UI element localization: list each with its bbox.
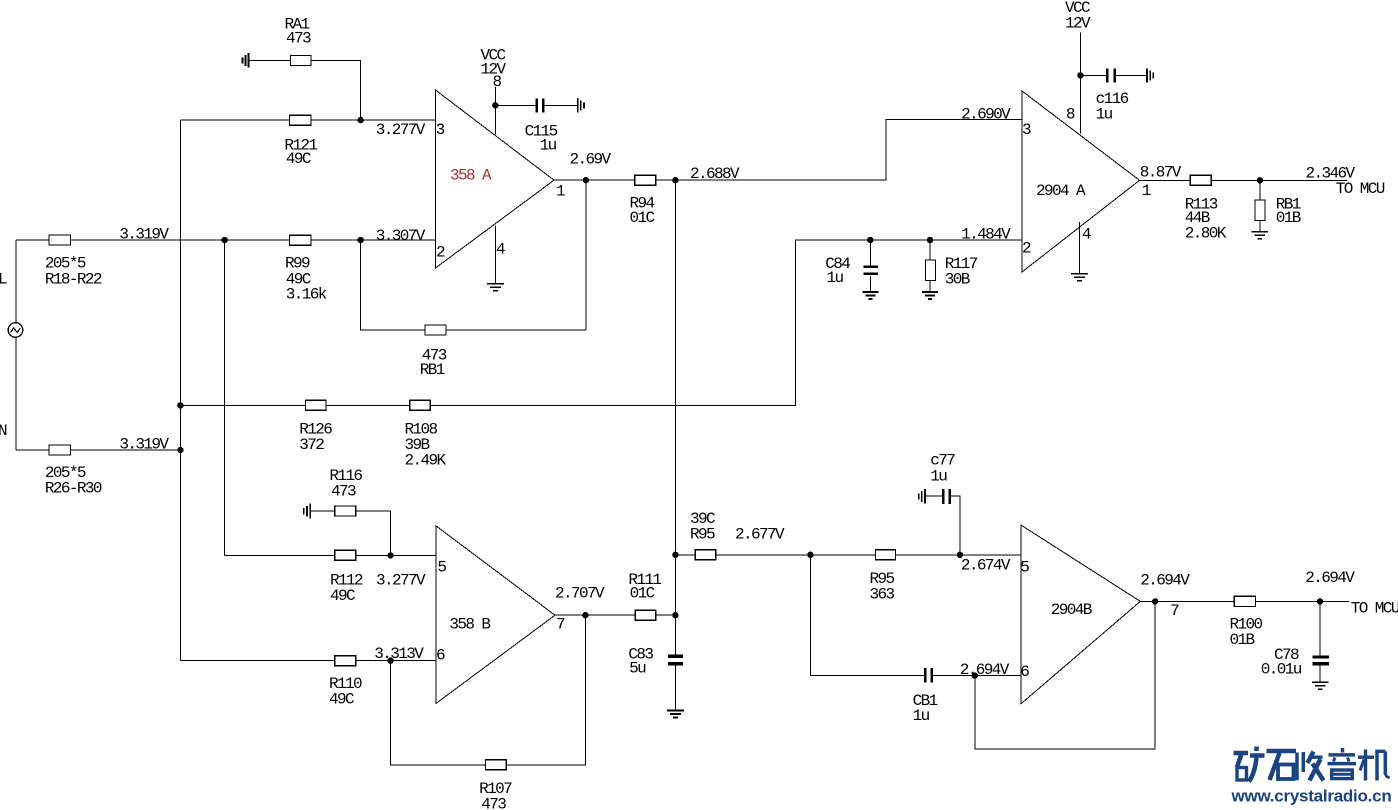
wire vertical bus x=180.4 bbox=[179, 120, 181, 661]
junction bus x=675.4 y=554.8 bbox=[672, 552, 678, 558]
wire feedback down from output bbox=[585, 180, 587, 330]
wire vertical bus x=224.7 bbox=[224, 240, 226, 555]
svg-text:7: 7 bbox=[1170, 602, 1179, 620]
wire 2904A output bbox=[1140, 179, 1191, 181]
svg-text:1: 1 bbox=[1142, 182, 1151, 200]
wire 358B output bbox=[555, 614, 635, 616]
op-amp U2A 2904 A bbox=[1022, 91, 1151, 272]
ground at 2904A pin4 bbox=[1071, 274, 1088, 281]
wire feedback left segment and up to pin2 junction bbox=[361, 240, 425, 330]
ground below C83 bbox=[667, 711, 684, 718]
svg-text:1.484V: 1.484V bbox=[961, 226, 1011, 244]
svg-text:12V: 12V bbox=[1065, 15, 1091, 33]
svg-text:8: 8 bbox=[1066, 106, 1075, 124]
capacitor C84 1u bbox=[825, 240, 878, 292]
junction pin5 row x=959.9 bbox=[957, 552, 963, 558]
svg-text:473: 473 bbox=[481, 796, 506, 810]
capacitor CB1 1u bbox=[913, 668, 1021, 725]
svg-text:2: 2 bbox=[1022, 240, 1031, 258]
junction output x=585.9 bbox=[583, 177, 589, 183]
wire pin6 row from x=180.4 bbox=[180, 660, 334, 662]
svg-text:372: 372 bbox=[299, 436, 324, 454]
svg-text:2.694V: 2.694V bbox=[1305, 569, 1355, 587]
pin 4 stub of 358A bbox=[495, 225, 505, 283]
svg-text:2.69V: 2.69V bbox=[570, 151, 612, 169]
svg-text:363: 363 bbox=[870, 586, 895, 604]
svg-text:358 A: 358 A bbox=[450, 167, 492, 185]
junction pin6 row x=974.8 bbox=[972, 672, 978, 678]
ground below C84 bbox=[862, 292, 878, 299]
wire 358B feedback down-left loop bbox=[391, 661, 486, 765]
svg-text:8: 8 bbox=[493, 73, 502, 91]
wire pin3 row from x=180.4 bbox=[180, 119, 289, 121]
capacitor C83 5u bbox=[628, 646, 683, 711]
op-amp U1B 358 B bbox=[436, 526, 565, 704]
svg-text:8.87V: 8.87V bbox=[1140, 164, 1182, 182]
ground at c77 bbox=[919, 489, 925, 504]
junction row x=810.5 bbox=[807, 552, 813, 558]
svg-text:473: 473 bbox=[331, 483, 356, 501]
junction pin6 row x=390.5 bbox=[387, 658, 393, 664]
capacitor c116 1u bbox=[1080, 68, 1146, 123]
capacitor c77 1u bbox=[926, 452, 956, 505]
wire R95 to pin5 of 2904B bbox=[896, 554, 1021, 556]
svg-text:01C: 01C bbox=[630, 209, 655, 227]
VCC 12V label (358A) bbox=[481, 47, 507, 79]
resistor R95 363 bbox=[870, 550, 896, 604]
wire R112 to pin5 of 358B bbox=[356, 554, 436, 556]
junction pin5 row x=390.5 bbox=[387, 552, 393, 558]
wire CB1 branch down-right bbox=[811, 555, 925, 676]
svg-text:01B: 01B bbox=[1276, 209, 1301, 227]
junction 2904B output x=1155.1 bbox=[1152, 598, 1158, 604]
svg-text:2.707V: 2.707V bbox=[555, 585, 605, 603]
resistor R95 39C (left) bbox=[675, 510, 715, 560]
svg-text:4: 4 bbox=[496, 241, 505, 259]
junction on pin2 wire at x=360.7 bbox=[358, 237, 364, 243]
resistor RA1 473 bbox=[249, 16, 311, 66]
svg-text:7: 7 bbox=[556, 616, 565, 634]
svg-text:3.16k: 3.16k bbox=[286, 286, 327, 304]
svg-text:R95: R95 bbox=[690, 526, 715, 544]
wire R116 to corner down to pin5 junction bbox=[356, 511, 391, 555]
resistor R107 473 bbox=[479, 760, 512, 810]
ground at RA1 bbox=[243, 53, 249, 68]
svg-text:www.crystalradio.cn: www.crystalradio.cn bbox=[1231, 787, 1392, 806]
svg-text:1u: 1u bbox=[930, 468, 947, 486]
wire between R126 and R108 bbox=[326, 404, 410, 406]
junction x=675.4 on output row bbox=[672, 177, 678, 183]
svg-text:5: 5 bbox=[1020, 558, 1029, 576]
svg-text:0.01u: 0.01u bbox=[1261, 661, 1302, 679]
wire mid row y=405.4 bbox=[180, 404, 305, 406]
junction 358B output x=585.3 bbox=[582, 612, 588, 618]
AC source V1 bbox=[8, 323, 23, 338]
svg-text:2.694V: 2.694V bbox=[960, 661, 1010, 679]
op-amp U2B 2904B bbox=[1020, 525, 1179, 704]
wire R100 to TO MCU bbox=[1256, 600, 1350, 602]
svg-text:3.319V: 3.319V bbox=[119, 226, 169, 244]
svg-text:1u: 1u bbox=[827, 269, 844, 287]
resistor R113 44B 2.80K bbox=[1185, 175, 1227, 242]
resistor R117 30B bbox=[926, 240, 978, 292]
VCC 12V label (2904A) bbox=[1065, 0, 1091, 33]
resistor R112 49C bbox=[330, 550, 363, 605]
wire RA1 to corner and down to pin3 junction bbox=[311, 61, 361, 121]
capacitor C115 1u bbox=[495, 98, 577, 154]
junction pin8 x=495.3 bbox=[492, 102, 498, 108]
svg-text:2.694V: 2.694V bbox=[1140, 572, 1190, 590]
svg-text:3.319V: 3.319V bbox=[119, 436, 169, 454]
junction output row x=1259.9 bbox=[1257, 177, 1263, 183]
op-amp U1A 358 A bbox=[436, 90, 566, 268]
svg-text:TO MCU: TO MCU bbox=[1336, 180, 1385, 198]
svg-text:01B: 01B bbox=[1230, 631, 1255, 649]
wire R110 to pin6 of 358B bbox=[356, 660, 436, 662]
svg-text:2.677V: 2.677V bbox=[735, 526, 785, 544]
resistor R100 01B bbox=[1230, 596, 1263, 649]
wire c77 to corner down to pin5 junction bbox=[951, 496, 960, 555]
wire N vertical from source bottom bbox=[15, 337, 17, 450]
wire 2904B output bbox=[1140, 600, 1234, 602]
svg-text:1u: 1u bbox=[1096, 106, 1113, 124]
capacitor C78 0.01u bbox=[1261, 601, 1329, 681]
svg-text:1u: 1u bbox=[913, 707, 930, 725]
resistor R94 01C bbox=[630, 175, 656, 227]
svg-text:3.313V: 3.313V bbox=[374, 645, 424, 663]
svg-text:30B: 30B bbox=[945, 271, 970, 289]
wire R99 to pin2 of 358A bbox=[311, 239, 436, 241]
ground below C78 bbox=[1312, 682, 1328, 689]
svg-text:5: 5 bbox=[437, 559, 446, 577]
wire R111 to bus x=675.4 bbox=[656, 614, 676, 616]
junction pin2 row at R117 bbox=[927, 237, 933, 243]
junction pin3 row x=360.7 bbox=[358, 117, 364, 123]
wire feedback bottom right segment bbox=[446, 329, 586, 331]
resistor R111 01C bbox=[628, 571, 661, 620]
svg-text:2904 A: 2904 A bbox=[1036, 182, 1086, 200]
resistor RB1 473 (feedback 358A) bbox=[420, 325, 447, 379]
svg-text:2904B: 2904B bbox=[1051, 601, 1092, 619]
watermark logo kuangshi shouyinji bbox=[1234, 747, 1390, 782]
wire L row to R99 bbox=[71, 239, 290, 241]
svg-text:6: 6 bbox=[436, 647, 445, 665]
wire R107 to corner up to output junction bbox=[506, 615, 585, 765]
svg-text:49C: 49C bbox=[329, 691, 354, 709]
svg-text:2: 2 bbox=[436, 244, 445, 262]
ground at R116 bbox=[304, 504, 310, 519]
junction pin2 row at C84 bbox=[867, 237, 873, 243]
wire vertical bus x=675.4 bbox=[674, 180, 676, 655]
svg-text:2.80K: 2.80K bbox=[1185, 225, 1227, 243]
svg-text:R18-R22: R18-R22 bbox=[45, 271, 102, 289]
pin 8 number label bbox=[492, 73, 502, 91]
svg-text:2.690V: 2.690V bbox=[961, 106, 1011, 124]
wire 2904B feedback loop bbox=[975, 601, 1155, 748]
wire 358A output bbox=[554, 179, 635, 181]
junction bottom output row x=1320 bbox=[1317, 598, 1323, 604]
svg-text:49C: 49C bbox=[286, 150, 311, 168]
resistor R99 bbox=[285, 235, 327, 303]
svg-text:1: 1 bbox=[556, 183, 565, 201]
wire R94 to corner up to 2904A pin3 bbox=[656, 119, 1022, 180]
svg-text:01C: 01C bbox=[630, 585, 655, 603]
svg-text:6: 6 bbox=[1020, 663, 1029, 681]
ground at 358A pin4 bbox=[487, 284, 504, 291]
wire R108 to corner up to 2904A pin2 row bbox=[430, 240, 1022, 405]
ground right of C115 bbox=[578, 98, 584, 112]
wire R121 to pin3 of 358A bbox=[311, 119, 436, 121]
svg-text:3.277V: 3.277V bbox=[376, 121, 426, 139]
svg-text:49C: 49C bbox=[330, 587, 355, 605]
resistor R26-R30 (205*5) bbox=[16, 445, 102, 498]
junction bus x=675.4 y=615.2 bbox=[672, 612, 678, 618]
ground below RB1 bbox=[1252, 232, 1268, 239]
svg-text:3: 3 bbox=[436, 121, 445, 139]
junction N row at x=180.4 bbox=[177, 447, 183, 453]
svg-text:473: 473 bbox=[286, 30, 311, 48]
ground right of c116 bbox=[1147, 68, 1153, 82]
wire pin5 row from x=224.7 bbox=[225, 554, 335, 556]
junction on L row at x=224.7 bbox=[222, 237, 228, 243]
svg-text:3.307V: 3.307V bbox=[376, 227, 426, 245]
resistor R116 473 bbox=[311, 467, 362, 516]
resistor R18-R22 (205*5) bbox=[16, 235, 102, 289]
wire 39C-R95 row bbox=[716, 554, 876, 556]
pin 8 stub of 358A bbox=[494, 76, 496, 134]
svg-text:2.688V: 2.688V bbox=[690, 165, 740, 183]
svg-text:4: 4 bbox=[1082, 226, 1091, 244]
svg-text:N: N bbox=[0, 422, 7, 440]
svg-text:3: 3 bbox=[1022, 121, 1031, 139]
wire L vertical from source top bbox=[15, 240, 17, 323]
svg-text:2.674V: 2.674V bbox=[961, 557, 1011, 575]
svg-text:2.49K: 2.49K bbox=[405, 452, 447, 470]
svg-text:5u: 5u bbox=[629, 660, 646, 678]
svg-text:RB1: RB1 bbox=[420, 361, 445, 379]
svg-text:1u: 1u bbox=[540, 137, 557, 155]
svg-text:L: L bbox=[0, 271, 7, 289]
resistor R126 372 bbox=[299, 400, 332, 454]
resistor R121 bbox=[284, 115, 317, 168]
pin 8 stub of 2904A bbox=[1066, 32, 1081, 133]
svg-text:TO MCU: TO MCU bbox=[1351, 600, 1398, 618]
wire N row to x=180 bbox=[71, 449, 181, 451]
resistor R110 49C bbox=[329, 656, 362, 709]
junction x=180.4 y=405.4 bbox=[177, 402, 183, 408]
ground below R117 bbox=[922, 292, 938, 299]
resistor R108 39B 2.49K bbox=[405, 400, 447, 469]
svg-text:R26-R30: R26-R30 bbox=[45, 480, 102, 498]
svg-text:358 B: 358 B bbox=[449, 616, 490, 634]
pin 4 stub of 2904A bbox=[1079, 222, 1091, 273]
resistor RB1 01B (vertical) bbox=[1255, 180, 1301, 231]
svg-text:3.277V: 3.277V bbox=[376, 572, 426, 590]
junction pin8 x=1080.4 bbox=[1077, 72, 1083, 78]
wire R113 to TO MCU bbox=[1211, 179, 1347, 181]
